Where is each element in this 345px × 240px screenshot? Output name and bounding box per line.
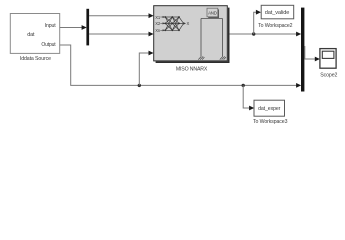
wire Demux out1 to NNARX in1 bbox=[89, 15, 152, 17]
arrowhead into Mux top bbox=[296, 32, 301, 37]
wire Input to Demux bbox=[60, 27, 85, 29]
svg-text:To Workspace2: To Workspace2 bbox=[258, 23, 293, 29]
svg-text:X2: X2 bbox=[155, 21, 161, 26]
arrowhead NNARX in1 bbox=[149, 13, 154, 18]
svg-text:dat: dat bbox=[27, 32, 35, 38]
Mux bar bbox=[301, 8, 304, 92]
icon output arrow and X label bbox=[183, 22, 186, 25]
svg-text:X: X bbox=[187, 21, 190, 26]
ground hatch left bbox=[198, 56, 204, 59]
icon mesh nodes bbox=[164, 16, 180, 31]
wire NNARX output to Mux bbox=[230, 33, 300, 35]
wire Output feedback (down and across bottom) bbox=[60, 45, 300, 85]
block MISO NNARX bbox=[154, 6, 230, 63]
block dat_exper (To Workspace3) bbox=[254, 100, 285, 116]
arrowhead NNARX in2 bbox=[149, 32, 154, 37]
sub-block AND bbox=[207, 8, 219, 18]
icon neural net mesh bbox=[165, 17, 183, 30]
svg-text:Output: Output bbox=[41, 42, 56, 48]
svg-text:Scope2: Scope2 bbox=[320, 73, 337, 79]
svg-text:Input: Input bbox=[45, 23, 56, 29]
block dat_valide (To Workspace2) bbox=[261, 5, 294, 18]
wire Demux out2 to NNARX in2 bbox=[89, 33, 152, 35]
icon inner tapped-delay rect bbox=[201, 19, 223, 57]
Demux bar bbox=[86, 9, 89, 46]
wire junction down to dat_exper bbox=[243, 85, 252, 108]
svg-text:X1: X1 bbox=[155, 15, 161, 20]
svg-text:Iddata Source: Iddata Source bbox=[20, 56, 51, 62]
arrowhead into dat_exper bbox=[249, 106, 254, 111]
svg-text:MISO NNARX: MISO NNARX bbox=[176, 66, 208, 72]
svg-text:Xn: Xn bbox=[155, 28, 161, 33]
arrowhead into Demux bbox=[82, 25, 87, 30]
block Iddata Source bbox=[10, 14, 59, 54]
wire Mux to Scope2 bbox=[305, 46, 318, 59]
node junction to dat_valide bbox=[252, 32, 255, 35]
svg-text:dat_exper: dat_exper bbox=[258, 106, 281, 112]
wire junction up to NNARX in3 bbox=[139, 53, 152, 85]
icon neural net labels X1 X2 Xn bbox=[155, 15, 161, 33]
svg-text:AND: AND bbox=[208, 10, 217, 15]
wire junction up to dat_valide bbox=[254, 12, 260, 34]
node junction feedback to NNARX bbox=[138, 84, 141, 87]
block Scope2 bbox=[320, 49, 336, 69]
svg-text:dat_valide: dat_valide bbox=[265, 10, 290, 16]
icon input arrows bbox=[160, 17, 163, 30]
arrowhead into Scope2 bbox=[315, 57, 320, 62]
ground hatch right bbox=[220, 56, 226, 59]
svg-text:To Workspace3: To Workspace3 bbox=[253, 119, 288, 125]
node junction feedback to dat_exper bbox=[242, 84, 245, 87]
arrowhead into Mux bottom bbox=[296, 83, 301, 88]
arrowhead NNARX in3 bbox=[149, 51, 154, 56]
arrowhead into dat_valide bbox=[256, 10, 261, 15]
